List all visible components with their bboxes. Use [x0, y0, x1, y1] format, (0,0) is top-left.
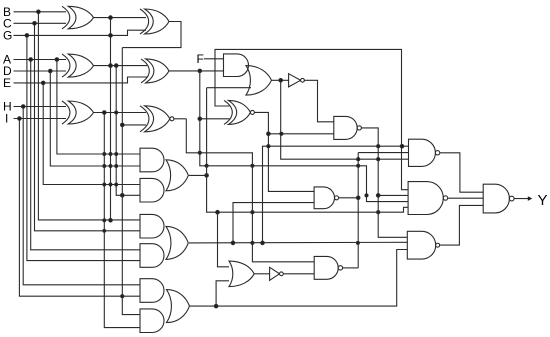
- wire trunk H down to AND A5 in1: [23, 107, 140, 285]
- and gate A5: [140, 279, 164, 303]
- and gate G7 (F): [224, 54, 249, 77]
- wire E step into XOR5: [14, 77, 148, 83]
- wire trunk C down to AND A3 in2: [35, 23, 141, 231]
- junction C tap: [33, 22, 37, 26]
- inverter I2: [270, 267, 280, 280]
- junction crossing V358: [357, 164, 360, 167]
- junction NAND13 out: [356, 196, 360, 200]
- junction crossing H195: [365, 194, 368, 197]
- wire U5 out to AND7 in2: [169, 70, 224, 72]
- wire trunk A down to AND A4 in1: [31, 60, 140, 250]
- junction crossing U3 out: [115, 111, 118, 114]
- wire NAND13 out to V358: [339, 197, 359, 199]
- wire trunk B down to AND A3 in1: [38, 12, 140, 220]
- wire I to XOR3: [14, 118, 67, 120]
- wire trunk A^D down to AND A2 in2: [116, 66, 140, 196]
- junction I tap: [18, 117, 22, 121]
- junction O2 branch to NAND12 in1: [261, 241, 265, 245]
- and gate A2: [140, 178, 164, 202]
- wire O2 branch up to NAND13 in2: [233, 203, 314, 243]
- junction XNOR10 in2 tap: [198, 117, 202, 121]
- wire O1 net branch to O4 in1: [218, 212, 230, 267]
- wire NAND11 out down to NAND15 in1: [361, 128, 407, 237]
- junction crossing: [103, 153, 106, 156]
- nand gate G16 final: [483, 184, 509, 213]
- nand gate N5: [314, 256, 338, 279]
- wire D to XOR2: [14, 70, 67, 72]
- junction A^D tap: [114, 64, 118, 68]
- wire O3 branch to O4 in2: [216, 281, 229, 306]
- junction E tap: [41, 81, 45, 85]
- wire trunk A2nd down to AND A1 in1: [57, 60, 140, 155]
- junction O2 out branch up: [231, 241, 235, 245]
- junction G tap: [25, 34, 29, 38]
- junction crossing: [103, 229, 106, 232]
- wire branch to NAND14 in2: [378, 194, 408, 196]
- wire O2 out to NAND15 in2: [189, 241, 407, 244]
- svg-text:F: F: [197, 52, 204, 66]
- junction crossing: [103, 183, 106, 186]
- xnor gate G10: [224, 100, 232, 124]
- junction crossing U2 out: [109, 64, 113, 68]
- wire F to AND7: [204, 58, 224, 60]
- wire trunk G down to AND A4 in2: [27, 35, 140, 260]
- wire U6out into XNOR10 in2 left part: [200, 118, 230, 120]
- wire branch to NAND11 in2: [268, 133, 333, 135]
- junction O1 out: [205, 174, 209, 178]
- xor gate U5 (A^D,E): [141, 59, 149, 83]
- or gate O2: [166, 226, 188, 259]
- wire trunk H^I down to AND A6 in2: [104, 113, 140, 328]
- junction crossing N5 vert: [356, 241, 359, 244]
- wire U3 out to U6: [94, 112, 147, 114]
- or gate G8: [246, 66, 272, 96]
- xor gate U1 (B,C): [62, 6, 70, 29]
- xor gate U4 (B^C,G): [140, 9, 149, 34]
- or gate O1: [166, 160, 188, 191]
- or gate O3: [167, 290, 190, 323]
- wire B to XOR1: [14, 11, 67, 13]
- and gate A3: [140, 214, 164, 238]
- junction B^C join A3 in1: [109, 219, 113, 223]
- junction G8 out branch: [279, 79, 283, 83]
- junction crossing H212: [377, 211, 380, 214]
- junction crossing: [115, 153, 118, 156]
- junction U5 out branch: [198, 69, 202, 73]
- wire N5 out to V358: [343, 267, 359, 269]
- wire G9 out to NAND11 in1: [304, 80, 334, 122]
- junction crossing: [103, 219, 106, 222]
- wire U2 out to U5: [94, 65, 148, 67]
- junction crossing G: [109, 34, 113, 38]
- wire U6 out to corner: [174, 118, 186, 120]
- junction crossing H159: [377, 158, 380, 161]
- wire A to XOR2: [14, 59, 67, 61]
- junction A tap 2: [55, 58, 59, 62]
- junction crossing: [267, 145, 270, 148]
- svg-text:E: E: [3, 76, 11, 90]
- nand gate G12: [409, 139, 436, 166]
- wire U6 net down to NAND N5 in1: [186, 119, 314, 262]
- junction big-rect tap: [400, 144, 404, 148]
- junction XNOR10 out branch: [267, 132, 271, 136]
- nand gate G11: [334, 116, 357, 139]
- wire trunk I down to AND A5 in2: [19, 119, 140, 297]
- junction A tap: [29, 58, 33, 62]
- wire U4 out wrap to trunk: [122, 22, 181, 48]
- nand gate G13: [314, 187, 334, 209]
- wire U1 out to U4: [94, 17, 147, 19]
- wire O1 out: [189, 174, 207, 176]
- svg-text:I: I: [5, 112, 8, 126]
- junction crossing A5 in2: [121, 295, 124, 298]
- wire G8 branch down to NAND12 in3: [281, 80, 409, 159]
- wire U5 net down right to NAND14 in3: [200, 71, 408, 202]
- svg-text:Y: Y: [538, 192, 548, 209]
- junction crossing V207: [205, 164, 208, 167]
- junction crossing H212: [251, 211, 254, 214]
- wire output Y with arrow: [515, 198, 530, 200]
- and gate A1: [140, 148, 164, 172]
- junction crossing: [115, 183, 118, 186]
- wire O3 out to NAND15 in3: [190, 250, 408, 307]
- wire O2 net top route to XNOR10 in1 and NAND14 in1: [215, 49, 408, 189]
- wire trunk D down to AND A1 in2: [50, 71, 140, 166]
- svg-text:G: G: [3, 29, 12, 43]
- junction crossing V252: [251, 164, 254, 167]
- wire G step into XOR4: [14, 30, 147, 35]
- xor gate U2 (A,D): [62, 54, 70, 77]
- junction D tap: [49, 69, 53, 73]
- junction crossing: [115, 165, 118, 168]
- wire trunk E down to AND A2 in1: [43, 83, 140, 185]
- junction crossing H159: [357, 158, 360, 161]
- junction crossing H153: [198, 151, 201, 154]
- junction NAND11 net branch to NAND14 in2: [376, 194, 380, 198]
- and gate A4: [140, 244, 164, 268]
- and gate A6: [140, 309, 164, 333]
- wire G8 out to G9: [272, 79, 289, 81]
- wire O4 out to I2: [254, 273, 269, 275]
- nand gate G14: [408, 182, 443, 215]
- junction O1 net branch: [216, 210, 220, 214]
- junction crossing H146: [377, 145, 380, 148]
- wire XNOR10 out down to NAND13 in1: [254, 112, 314, 191]
- junction O3 out branch: [214, 304, 218, 308]
- wire H to XOR3: [14, 106, 67, 108]
- xnor gate U6 (H^I, B^C^G): [140, 106, 149, 132]
- junction B^C^G to U6: [121, 123, 125, 127]
- junction crossing: [109, 183, 112, 186]
- wire C to XOR1: [14, 22, 67, 24]
- wire O1 net into G8 in2: [207, 87, 251, 89]
- wire NAND15 out to NAND16 in3: [439, 205, 483, 245]
- junction crossing O2 line: [251, 241, 254, 244]
- junction crossing: [280, 132, 283, 135]
- junction crossing A2 in2: [121, 194, 125, 198]
- wire V358 net: [357, 153, 359, 268]
- nand gate G15: [407, 231, 435, 259]
- wire trunk B^C^G down to AND A6 in1: [122, 48, 140, 315]
- junction H^I tap: [103, 111, 107, 115]
- wire O2 branch up to NAND12 in1: [263, 146, 409, 243]
- junction B tap: [37, 10, 41, 14]
- wire I2 out to N5 in2: [284, 273, 315, 275]
- wire trunk B^C down: [110, 18, 112, 221]
- wire O1 net up to G8 in2 and right to NAND14 in4: [207, 88, 409, 213]
- or gate O4: [229, 261, 254, 287]
- wire NAND12 out to NAND16 in1: [440, 153, 483, 192]
- wire NAND14 out to NAND16 in2: [448, 197, 484, 199]
- inverter G9: [289, 74, 301, 87]
- junction crossing: [109, 165, 112, 168]
- xor gate U3 (H,I): [62, 101, 70, 124]
- junction H tap: [21, 105, 25, 109]
- wire V358 to NAND12 in2: [358, 152, 408, 154]
- junction crossing: [103, 165, 106, 168]
- junction B^C tap: [109, 16, 113, 20]
- wire B^C^G branch to U6 in2: [122, 124, 146, 126]
- junction crossing: [109, 153, 112, 156]
